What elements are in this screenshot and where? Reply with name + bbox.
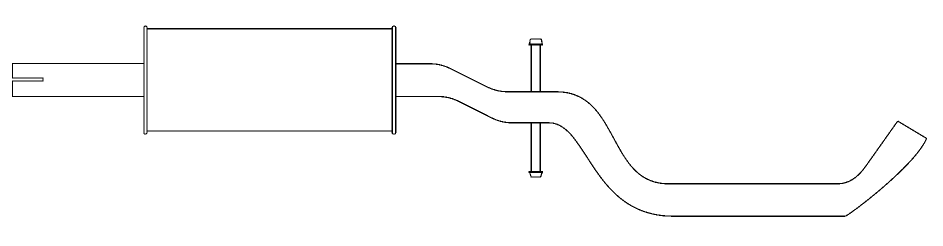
hanger rod upper segment (right line) xyxy=(539,46,541,92)
muffler left end cap xyxy=(144,26,147,134)
hanger rod top cap dome xyxy=(530,39,543,44)
hanger rod bottom plug xyxy=(530,173,542,177)
hanger rod bottom flange bar xyxy=(529,171,544,173)
hanger rod upper segment (left line) xyxy=(530,46,532,92)
outlet pipe bottom edge xyxy=(396,96,927,216)
muffler right end cap xyxy=(392,26,396,134)
outlet pipe end cut line xyxy=(898,121,927,138)
hanger rod lower segment (right line) xyxy=(539,124,541,171)
hanger rod lower segment (left line) xyxy=(530,124,532,171)
muffler body bottom line xyxy=(147,130,392,132)
hanger rod top flange bar xyxy=(529,44,544,46)
inlet pipe with slotted end xyxy=(13,64,144,97)
outlet pipe top edge xyxy=(396,64,898,184)
muffler body top line xyxy=(147,28,392,30)
